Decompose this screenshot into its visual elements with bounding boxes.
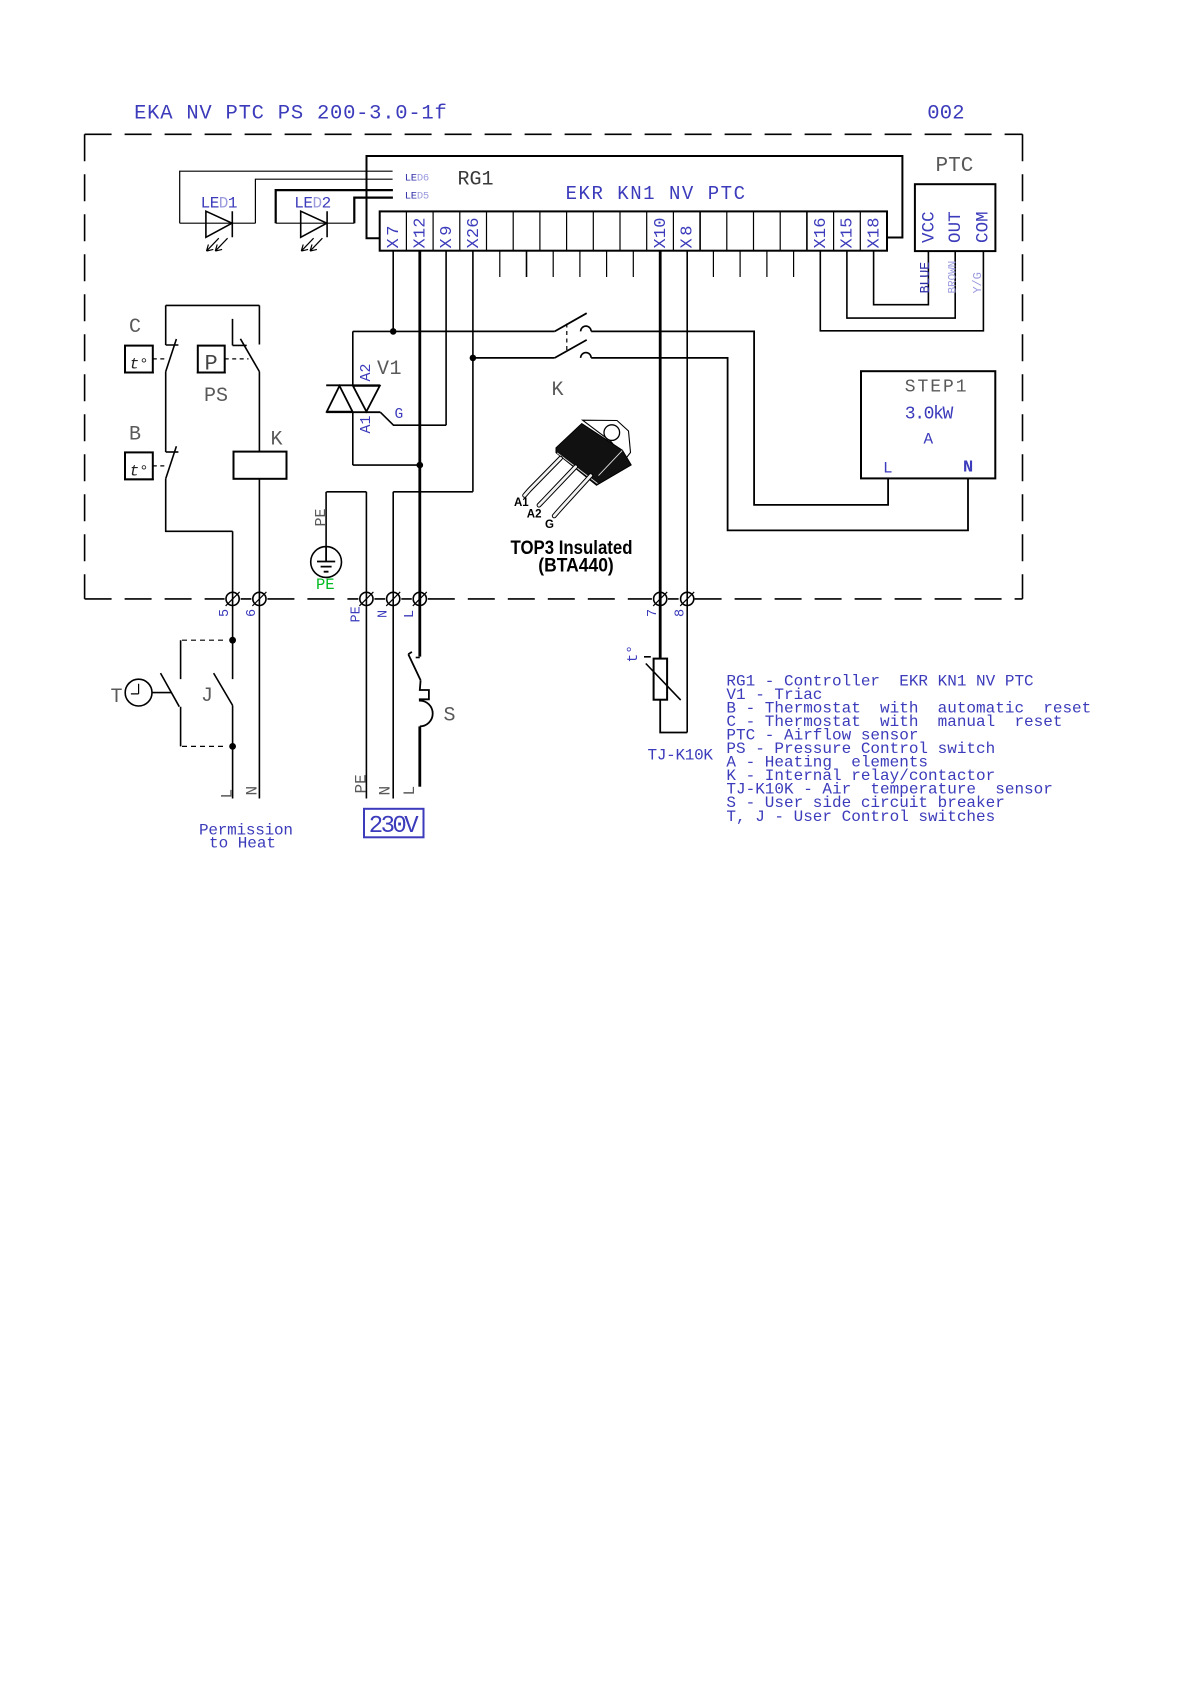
dashed enclosure border right: [1022, 134, 1024, 599]
triac V1 A2 lead: [352, 331, 354, 385]
junction J top: [229, 637, 236, 644]
breaker S thermal element: [420, 680, 433, 726]
LED1 wire: [180, 222, 256, 224]
triac V1 A1 lead: [352, 412, 354, 465]
terminal strip thick dividers: [700, 211, 807, 250]
svg-text:X16: X16: [812, 218, 831, 249]
svg-text:K: K: [271, 429, 283, 452]
terminal 7: [654, 592, 667, 605]
svg-text:T, J - User Control switches: T, J - User Control switches: [726, 808, 995, 826]
svg-text:L: L: [883, 460, 893, 478]
wire X9 to gate: [445, 251, 447, 426]
wire X8 / sensor line 8: [686, 251, 688, 733]
terminal 5: [226, 592, 239, 605]
thermostat B contact arm: [166, 446, 177, 479]
K upper contact arm: [555, 313, 587, 331]
wire sensor bottom U: [660, 700, 687, 733]
TOP3 pin A1: [525, 458, 561, 495]
svg-text:X18: X18: [865, 218, 884, 249]
svg-text:LED2: LED2: [294, 195, 331, 213]
terminal PE: [360, 592, 373, 605]
dashed link C: [153, 358, 166, 360]
J contact arm: [214, 673, 233, 705]
svg-text:K: K: [552, 379, 564, 402]
svg-text:230V: 230V: [369, 813, 420, 840]
triac V1 A2 bus: [353, 330, 420, 332]
TJ-K10K thermistor slash: [644, 657, 681, 700]
svg-text:S: S: [444, 705, 456, 728]
svg-text:PE: PE: [350, 606, 365, 622]
svg-text:EKA NV PTC PS 200-3.0-1f: EKA NV PTC PS 200-3.0-1f: [134, 103, 447, 126]
svg-text:X15: X15: [839, 218, 858, 249]
svg-text:RG1: RG1: [458, 169, 494, 192]
svg-text:V1: V1: [377, 358, 402, 381]
TOP3 package tab: [583, 420, 631, 459]
unconnected stub pins: [500, 251, 794, 277]
T branch bracket: [180, 640, 182, 746]
LED1 diode symbol: [206, 211, 232, 237]
thermostat C t-box: [125, 346, 153, 373]
wire N terminal drop: [392, 492, 394, 799]
PS bus drop: [258, 305, 260, 344]
thermostat B fixed foot: [166, 451, 179, 453]
TOP3 body edge highlights: [557, 451, 622, 484]
wire X18 to PTC VCC: [874, 251, 929, 305]
svg-text:VCC: VCC: [919, 211, 939, 243]
pressure switch PS box P: [198, 346, 225, 373]
dashed link PS: [225, 358, 249, 360]
svg-text:PS: PS: [204, 385, 228, 408]
breaker S foot: [416, 657, 420, 659]
LED1 arrows: [207, 238, 228, 251]
terminal 8: [681, 592, 694, 605]
svg-text:B: B: [129, 424, 141, 447]
T branch dashed links: [182, 640, 227, 746]
wire breaker to L tail: [418, 726, 421, 786]
svg-text:COM: COM: [974, 211, 994, 243]
svg-text:STEP1: STEP1: [905, 378, 967, 398]
svg-text:T: T: [111, 686, 123, 709]
X26 to N net horizontal segment B: [393, 491, 473, 493]
svg-text:(BTA440): (BTA440): [538, 555, 614, 577]
svg-text:5: 5: [218, 609, 233, 617]
wire X10 / sensor line 7: [659, 251, 662, 659]
svg-text:L: L: [219, 789, 237, 799]
terminal 6: [253, 592, 266, 605]
wire X16 to PTC COM: [820, 251, 983, 331]
wire X7: [392, 251, 394, 332]
terminal strip dividers: [406, 211, 860, 250]
svg-text:J: J: [201, 685, 213, 708]
heater STEP1 box: [861, 371, 995, 478]
wire J to L tail: [232, 705, 234, 798]
PS contact arm: [240, 339, 259, 372]
svg-text:t°: t°: [626, 645, 642, 662]
triac V1 triangles: [327, 386, 380, 412]
dashed enclosure border top: [85, 133, 1023, 135]
wire B to terminal 5: [166, 479, 233, 532]
PE net horizontal segment A: [326, 491, 366, 493]
timer T symbol: [125, 679, 152, 706]
dashed enclosure border bottom: [85, 598, 1023, 600]
wire X26: [472, 251, 474, 492]
svg-text:A1: A1: [358, 416, 375, 434]
dashed link B: [153, 465, 166, 467]
earth ground symbol: [311, 547, 342, 578]
wire X15 to PTC OUT: [847, 251, 955, 318]
junction J bottom: [229, 743, 236, 750]
svg-text:7: 7: [646, 609, 661, 617]
wire T to arm: [152, 692, 171, 694]
svg-text:3.0kW: 3.0kW: [905, 405, 954, 425]
TOP3 package tab hole: [604, 425, 620, 441]
junction X7 to A2 bus: [390, 328, 397, 335]
junction A1 to L line: [417, 462, 424, 469]
svg-text:N: N: [376, 610, 391, 618]
wire terminal5 to J contact: [232, 531, 234, 679]
svg-text:L: L: [403, 610, 418, 618]
terminal N: [387, 592, 400, 605]
LED2 arrows: [301, 238, 322, 251]
LED2 wire: [276, 222, 355, 224]
top bus of C/PS branch: [166, 304, 260, 306]
svg-text:6: 6: [245, 609, 260, 617]
TOP3 pin A2: [539, 467, 576, 505]
wire X26 junction to K lower contact: [473, 357, 555, 359]
K contacts dashed linkage: [566, 324, 568, 352]
svg-text:TJ-K10K: TJ-K10K: [648, 747, 714, 765]
svg-text:G: G: [545, 519, 554, 531]
wire PE terminal drop: [365, 492, 367, 799]
svg-text:OUT: OUT: [946, 211, 966, 243]
K lower contact arm: [555, 340, 587, 358]
svg-text:BROWN: BROWN: [948, 261, 960, 294]
svg-text:C: C: [129, 316, 141, 339]
thermostat B t-box: [125, 452, 153, 479]
svg-text:t°: t°: [130, 462, 149, 480]
svg-text:X26: X26: [465, 218, 484, 249]
air temperature sensor TJ-K10K body: [654, 659, 668, 700]
wire PS to relay coil K: [258, 372, 260, 452]
svg-text:PTC: PTC: [936, 155, 974, 178]
svg-text:EKR KN1 NV PTC: EKR KN1 NV PTC: [566, 183, 745, 205]
LED2 diode symbol: [301, 211, 327, 237]
wire K lower to STEP1 N: [591, 358, 968, 531]
K upper contact seat: [581, 326, 592, 331]
triac V1 gate wire: [380, 412, 446, 425]
thermostat C contact arm: [166, 339, 177, 372]
svg-text:A2: A2: [358, 364, 375, 382]
border bottom solid connectors between terminals: [241, 598, 679, 600]
svg-text:A: A: [924, 431, 934, 449]
wire A2 bus to K upper contact: [420, 330, 555, 332]
triac V1 rails: [326, 385, 380, 412]
svg-text:A1: A1: [514, 497, 529, 509]
terminal L: [413, 592, 426, 605]
svg-text:G: G: [395, 407, 404, 423]
TOP3 package body: [556, 424, 631, 486]
svg-text:BLUE: BLUE: [919, 262, 934, 294]
svg-text:X12: X12: [412, 218, 431, 249]
svg-text:P: P: [205, 352, 218, 377]
controller RG1 outline: [367, 156, 903, 238]
PE earth riser: [325, 492, 327, 547]
triac V1 A1 bus: [353, 464, 420, 466]
LED6 wire pair from LED1: [180, 171, 393, 223]
junction X26 to K contact: [470, 355, 477, 362]
svg-text:to Heat: to Heat: [209, 835, 276, 853]
svg-text:LED1: LED1: [201, 195, 238, 213]
breaker S arm: [408, 652, 420, 680]
wire K upper to STEP1 L: [591, 331, 888, 505]
relay coil K: [234, 452, 287, 479]
wire C to B: [165, 372, 167, 452]
thermostat C fixed lead with foot: [166, 305, 179, 345]
K lower contact seat: [581, 353, 592, 358]
svg-text:L: L: [401, 786, 419, 796]
wire K coil to terminal 6: [258, 479, 260, 799]
svg-text:N: N: [244, 786, 262, 796]
svg-text:PE: PE: [313, 508, 330, 526]
svg-text:LED5: LED5: [405, 191, 430, 203]
wire X12 / L line: [418, 251, 421, 657]
thick stub pin: [526, 251, 528, 277]
svg-text:A2: A2: [527, 509, 542, 521]
PTC sensor box: [915, 184, 996, 251]
svg-text:N: N: [963, 459, 973, 478]
T contact arm: [161, 673, 180, 707]
svg-text:002: 002: [927, 103, 964, 126]
LED5 wire pair from LED2 (thick): [276, 190, 393, 223]
TOP3 pin G: [554, 476, 591, 516]
230V supply box: [364, 809, 424, 838]
dashed enclosure border left: [84, 134, 86, 599]
svg-text:X10: X10: [652, 218, 671, 249]
svg-text:N: N: [377, 786, 395, 796]
svg-text:t°: t°: [130, 356, 149, 374]
svg-text:Y/G: Y/G: [971, 272, 985, 293]
svg-text:LED6: LED6: [405, 172, 430, 184]
terminal strip frame: [380, 211, 887, 250]
svg-text:PE: PE: [353, 774, 371, 793]
PS spare contact stub with foot: [233, 319, 247, 346]
svg-text:8: 8: [674, 609, 689, 617]
svg-text:PE: PE: [316, 576, 335, 594]
